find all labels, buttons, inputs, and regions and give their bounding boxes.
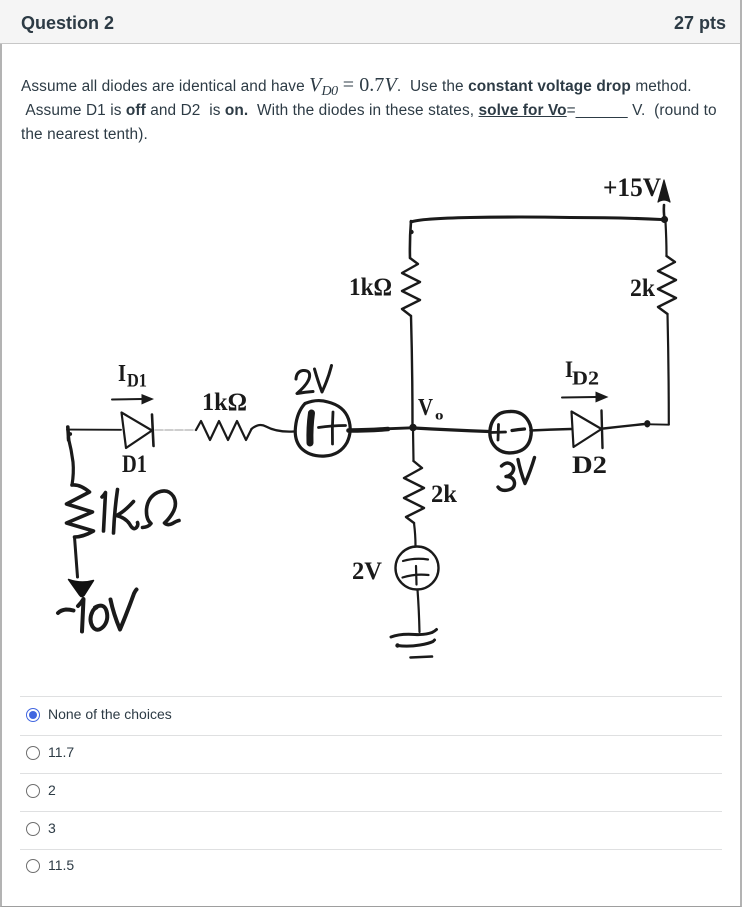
wire resistor to -10V arrow [75, 537, 78, 577]
resistor 1kΩ handwritten left [67, 485, 94, 537]
resistor R 1kΩ horizontal [196, 421, 252, 440]
wire R1 bottom to node Vo [411, 316, 413, 426]
source V1 2V (hand-drawn circle) [295, 401, 350, 457]
label 3V (handwritten) [498, 458, 535, 491]
wire R2 to source V1 [252, 425, 295, 432]
svg-text:+15V: +15V [603, 173, 661, 202]
svg-text:D2: D2 [572, 452, 607, 479]
resistor R 2k vertical right [658, 256, 676, 314]
wire right corner to D2 cathode node [650, 423, 669, 425]
svg-text:I: I [118, 361, 126, 387]
svg-text:2k: 2k [431, 481, 457, 508]
wire left branch vertical [68, 438, 73, 485]
svg-text:2k: 2k [630, 275, 655, 302]
arrow I_D1 [112, 394, 154, 405]
svg-text:1kΩ: 1kΩ [202, 389, 247, 416]
wire top horizontal [411, 217, 661, 222]
wire D2 cathode to right node [604, 424, 646, 429]
label I_D2 [565, 357, 599, 390]
svg-text:D1: D1 [122, 451, 147, 478]
label 1kΩ (series resistor) [202, 389, 247, 416]
node D2-right junction dot [644, 420, 650, 427]
source V2 2V (printed circle) [396, 547, 439, 590]
label 2k (top-right resistor) [630, 275, 655, 302]
label D1 [122, 451, 147, 478]
+15V supply arrow [658, 180, 670, 218]
diode D1 [122, 413, 154, 449]
resistor R 2k mid vertical [404, 461, 424, 523]
node top-right junction [661, 216, 668, 223]
label I_D1 [118, 361, 147, 392]
wire node Vo down [412, 429, 415, 461]
ground [391, 630, 437, 658]
label 1kΩ (top resistor) [349, 274, 392, 301]
svg-text:1kΩ: 1kΩ [349, 274, 392, 301]
wire node Vo to source V3 [414, 428, 489, 432]
label 2k (mid resistor) [431, 481, 457, 508]
CIRCUIT SVG [0, 160, 742, 690]
arrow I_D2 [562, 392, 609, 403]
wire D1 cathode to R2 (faint) [155, 429, 196, 431]
svg-text:2V: 2V [352, 558, 382, 585]
wire node to 2k top [666, 222, 667, 256]
label 2V (left of bottom source) [352, 558, 382, 585]
svg-text:D2: D2 [572, 368, 599, 390]
wire top-left corner down to R1 [410, 221, 411, 258]
label +15V [603, 173, 661, 202]
label 2V (handwritten) [296, 366, 332, 394]
wire right vertical down from 2k [668, 314, 669, 425]
svg-text:D1: D1 [127, 371, 147, 392]
label -10V (handwritten) [58, 590, 137, 632]
arrow -10V (solid head) [69, 580, 94, 597]
diode D2 [572, 411, 603, 449]
label 1kΩ (handwritten) [102, 490, 179, 534]
wire V2 to ground [418, 590, 420, 633]
options [20, 696, 722, 697]
node Vo dot [409, 424, 417, 432]
resistor R 1kΩ vertical [402, 258, 420, 316]
svg-text:o: o [435, 409, 444, 424]
wire left stub tick [66, 427, 70, 440]
label Vo [418, 395, 444, 424]
wire left to D1 anode [67, 429, 121, 431]
wire V3 to D2 anode [531, 429, 572, 431]
wire V1 to node Vo (thick marker) [349, 429, 389, 431]
source V3 3V (hand-drawn circle) [490, 411, 531, 452]
wire R3 to source V2 [414, 523, 416, 546]
label D2 [572, 452, 607, 479]
svg-text:V: V [418, 395, 434, 421]
